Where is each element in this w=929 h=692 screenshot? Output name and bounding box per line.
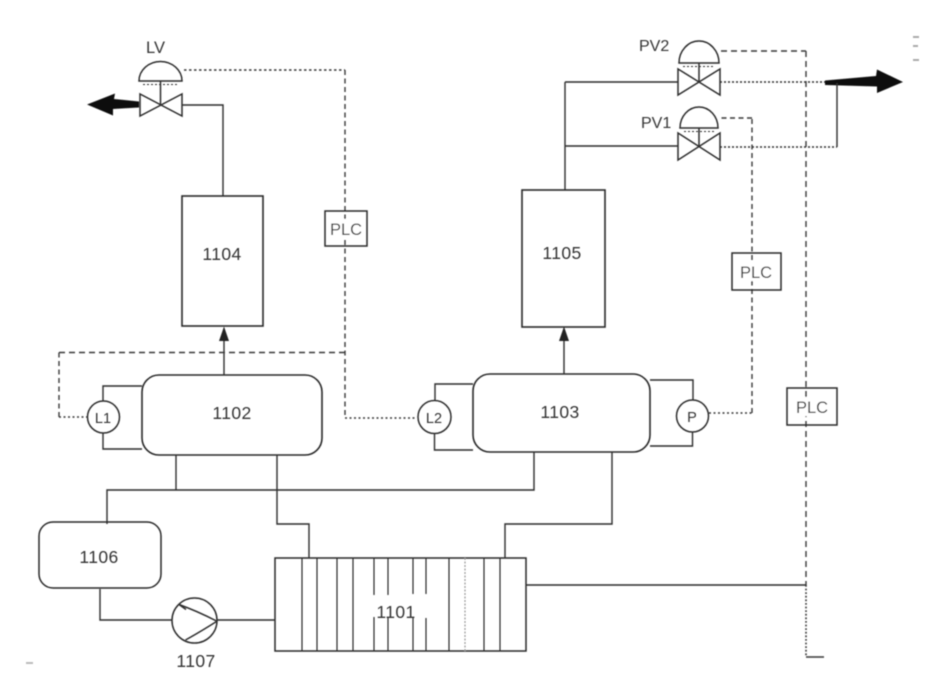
vessel 1105	[522, 190, 605, 327]
vessel 1104	[182, 196, 263, 326]
signal wire LV dome to PLC1 (dotted/dashed)	[184, 70, 345, 418]
wire 1103 to exchanger 1101	[505, 452, 612, 558]
pump 1107	[172, 598, 217, 643]
svg-text:LV: LV	[146, 39, 165, 57]
svg-text:PLC: PLC	[330, 221, 362, 239]
label PV2	[639, 38, 669, 55]
arrow out right (bold)	[825, 70, 903, 94]
svg-text:1107: 1107	[176, 651, 215, 671]
valve LV	[140, 94, 182, 116]
vessel 1103	[473, 374, 650, 452]
label LV	[146, 39, 165, 57]
valve PV1	[678, 133, 720, 160]
PLC box 2	[732, 253, 781, 290]
instrument P	[650, 380, 709, 446]
wire PV1 out to arrow junction	[720, 83, 837, 147]
wire 1102 to 1104 with arrow	[219, 327, 229, 376]
signal wire PV2 dome to PLC3	[721, 51, 806, 585]
instrument L1	[88, 386, 143, 449]
svg-text:1102: 1102	[212, 403, 251, 423]
PLC box 1	[325, 211, 367, 246]
PLC box 3	[787, 388, 837, 425]
svg-text:PV1: PV1	[641, 115, 671, 132]
scan specks bottom left	[26, 662, 33, 664]
actuator dome LV	[139, 62, 182, 105]
signal wire PLC3 down	[806, 585, 824, 657]
svg-text:1103: 1103	[540, 402, 579, 422]
heat exchanger 1101	[275, 558, 526, 651]
svg-text:1104: 1104	[202, 244, 241, 264]
svg-text:P: P	[687, 410, 697, 426]
arrow out left (bold)	[87, 94, 139, 116]
valve PV2	[678, 69, 720, 95]
vessel 1106	[39, 522, 161, 588]
svg-text:PLC: PLC	[796, 399, 828, 417]
signal wire PLC2 up to valve PV1 dome	[719, 117, 752, 119]
label PV1	[641, 115, 671, 132]
svg-text:1101: 1101	[376, 602, 415, 622]
label 1107	[176, 651, 215, 671]
actuator dome PV2	[679, 41, 719, 82]
svg-text:PLC: PLC	[740, 264, 772, 282]
wire exchanger 1101 out	[526, 584, 806, 586]
wire 1105 top to PV2 and PV1	[565, 82, 678, 190]
label 1101	[376, 602, 415, 622]
signal wire loop to L1 (dashed)	[59, 353, 345, 418]
wire bottom header 1103 to 1106	[107, 452, 534, 524]
actuator dome PV1	[680, 107, 718, 146]
wire pump 1107 to exchanger 1101	[217, 619, 275, 621]
svg-text:1106: 1106	[79, 547, 118, 567]
signal wire PLC1 down to L2 junction	[345, 417, 417, 419]
svg-text:PV2: PV2	[639, 38, 669, 55]
wire 1106 to pump 1107	[100, 589, 172, 620]
wire valve LV to vessel 1104	[182, 105, 223, 196]
instrument L2	[418, 384, 473, 450]
scan specks top right	[913, 36, 919, 61]
svg-text:L1: L1	[95, 411, 111, 427]
wire 1102 to exchanger 1101	[277, 455, 309, 558]
svg-text:L2: L2	[426, 411, 442, 427]
svg-text:1105: 1105	[542, 243, 581, 263]
vessel 1102	[142, 375, 322, 455]
wire PV2 out (dotted)	[720, 81, 838, 83]
signal wire P to PLC2	[709, 118, 752, 413]
wire 1102 bottom port to header	[175, 455, 177, 490]
wire 1103 to 1105 with arrow	[559, 327, 569, 375]
